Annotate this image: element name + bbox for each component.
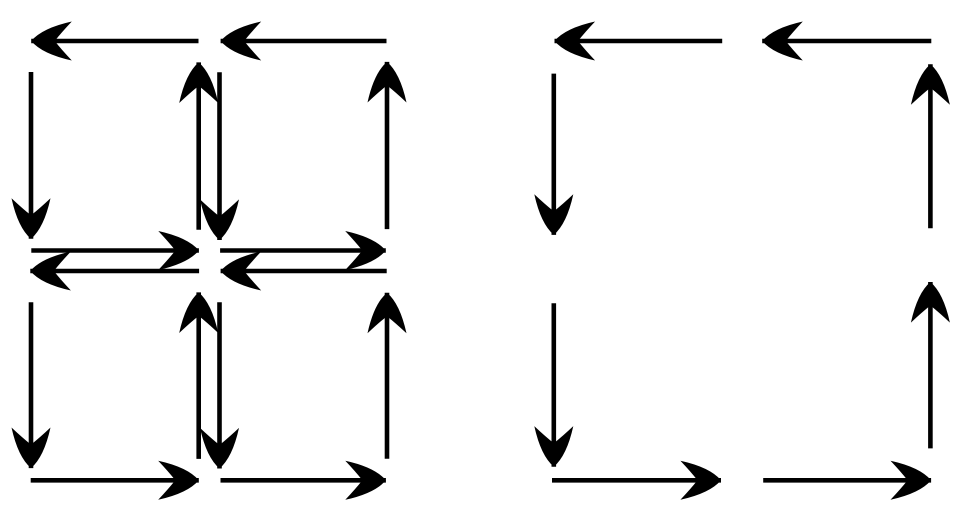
cell BL left edge arrow (down) (12, 302, 51, 468)
cell TL bottom edge arrow (right) (31, 231, 199, 270)
cell BR bottom edge arrow (right) (221, 461, 386, 500)
cell BL top edge arrow (left) (30, 252, 199, 291)
outer cycle right edge arrow upper half (up) (911, 64, 950, 228)
outer cycle left edge arrow upper half (down) (534, 74, 573, 235)
cell TR top edge arrow (left) (221, 22, 387, 61)
outer cycle left edge arrow lower half (down) (534, 303, 573, 466)
outer cycle top edge arrow right half (left) (762, 22, 931, 61)
outer cycle bottom edge arrow right half (right) (763, 461, 931, 500)
cell TR right edge arrow (up) (368, 62, 407, 229)
cell BL bottom edge arrow (right) (31, 461, 199, 500)
cell BL right edge arrow (up) (179, 292, 218, 459)
cell TR bottom edge arrow (right) (220, 231, 386, 270)
cell TL left edge arrow (down) (12, 72, 51, 239)
cell TR left edge arrow (down) (200, 72, 239, 240)
outer cycle bottom edge arrow left half (right) (552, 461, 721, 500)
outer cycle top edge arrow left half (left) (555, 22, 723, 61)
cell BR right edge arrow (up) (368, 293, 407, 459)
cell BR left edge arrow (down) (200, 302, 239, 468)
cell BR top edge arrow (left) (221, 252, 387, 291)
cell TL right edge arrow (up) (179, 62, 218, 229)
outer cycle right edge arrow lower half (up) (911, 282, 950, 448)
cell TL top edge arrow (left) (31, 22, 198, 61)
